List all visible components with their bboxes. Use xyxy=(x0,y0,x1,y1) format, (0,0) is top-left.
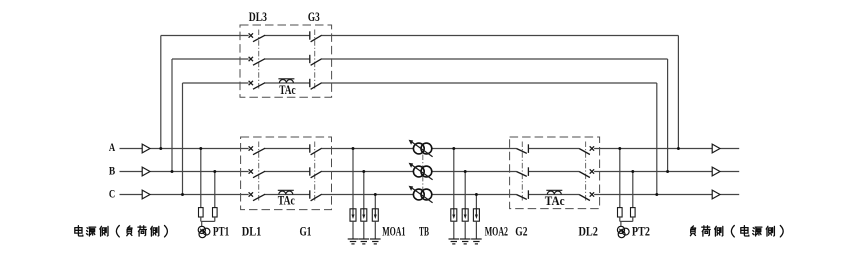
wire bypass riser left B xyxy=(171,59,173,172)
wire MOA1 A to ground xyxy=(352,221,354,239)
disconnector G3 phase A xyxy=(310,31,322,42)
fuse PT2 phase A xyxy=(618,208,623,217)
voltage transformer PT2 xyxy=(617,226,629,237)
current transformer TAc (DL2 side) xyxy=(546,190,562,194)
wire MOA2 B drop xyxy=(464,172,466,209)
circuit breaker DL1 phase C xyxy=(249,192,266,200)
wire MOA1 C to ground xyxy=(374,221,376,239)
circuit breaker DL3 phase C xyxy=(249,81,266,89)
svg-text:MOA2: MOA2 xyxy=(485,223,508,238)
fuse PT1 phase A xyxy=(199,208,204,217)
ground MOA2 phase C xyxy=(471,239,482,244)
disconnector G2 phase B xyxy=(516,167,528,176)
surge arrester MOA1 phase B xyxy=(361,209,367,221)
wire bypass riser left A xyxy=(160,36,162,149)
wire PT1 junction bar xyxy=(201,220,215,222)
wire PT2 tap from phase B xyxy=(632,172,634,208)
wire MOA1 A drop xyxy=(352,149,354,209)
arrow load phase C xyxy=(712,190,720,199)
junction PT2 A xyxy=(618,147,621,150)
disconnector G3 phase B xyxy=(310,55,322,66)
wire PT1 tap from phase B xyxy=(214,172,216,208)
junction MOA1 A xyxy=(352,147,355,150)
wire phase C main horizontal xyxy=(120,194,143,196)
surge arrester MOA2 phase C xyxy=(473,209,479,221)
svg-text:G1: G1 xyxy=(300,223,312,238)
wire PT2 tap from phase A xyxy=(619,149,621,208)
enclosure box DL3/G3 xyxy=(240,25,332,97)
surge arrester MOA2 phase B xyxy=(462,209,468,221)
wire bypass riser right B xyxy=(667,59,669,172)
voltage transformer PT1 xyxy=(198,226,210,237)
label 电源侧（负荷侧） source side xyxy=(75,226,168,237)
wire PT1 below fuse A xyxy=(200,217,202,221)
disconnector G2 phase C xyxy=(516,190,528,199)
wire bypass riser right C xyxy=(656,83,658,195)
svg-text:DL1: DL1 xyxy=(242,223,261,238)
wire MOA2 C to ground xyxy=(475,221,477,239)
junction bypass-left B xyxy=(171,170,174,173)
svg-text:G3: G3 xyxy=(308,9,320,24)
wire PT2 drop to winding xyxy=(620,221,622,226)
junction bypass-right A xyxy=(677,147,680,150)
wire MOA1 B to ground xyxy=(363,221,365,239)
wire MOA1 C drop xyxy=(374,195,376,209)
link line G3 xyxy=(314,30,316,91)
svg-text:TB: TB xyxy=(419,223,429,238)
link line G1 xyxy=(314,142,316,203)
svg-text:PT2: PT2 xyxy=(632,223,650,238)
fuse PT1 phase B xyxy=(213,208,218,217)
disconnector G1 phase A xyxy=(310,144,322,155)
surge arrester MOA1 phase A xyxy=(350,209,356,221)
wire bypass phase A horizontal xyxy=(161,35,249,37)
disconnector G1 phase B xyxy=(310,167,322,178)
disconnector G3 phase C xyxy=(310,79,322,90)
svg-text:TAc: TAc xyxy=(278,192,295,207)
svg-text:TAc: TAc xyxy=(279,82,296,97)
circuit breaker DL1 phase B xyxy=(249,169,266,177)
ground MOA1 phase B xyxy=(359,239,370,244)
wire MOA2 C drop xyxy=(475,195,477,209)
circuit breaker DL2 phase B xyxy=(579,169,594,177)
svg-text:TAc: TAc xyxy=(545,193,565,208)
wire MOA2 B to ground xyxy=(464,221,466,239)
junction bypass-left A xyxy=(159,147,162,150)
junction MOA1 B xyxy=(362,170,365,173)
circuit breaker DL2 phase C xyxy=(579,192,594,200)
disconnector G2 phase A xyxy=(516,144,528,153)
svg-text:DL2: DL2 xyxy=(579,223,598,238)
svg-text:MOA1: MOA1 xyxy=(382,223,405,238)
junction PT1 A xyxy=(199,147,202,150)
surge arrester MOA1 phase C xyxy=(372,209,378,221)
arrow load phase B xyxy=(712,167,720,176)
wire bypass riser right A xyxy=(677,36,679,149)
regulating transformer TB phase A xyxy=(409,140,433,157)
wire PT1 tap from phase A xyxy=(200,149,202,208)
link line G2 xyxy=(521,142,523,203)
ground MOA2 phase B xyxy=(460,239,471,244)
ground MOA2 phase A xyxy=(449,239,460,244)
current transformer TAc (DL1 side) xyxy=(278,190,294,194)
enclosure box DL1/G1 xyxy=(241,137,332,210)
junction PT2 B xyxy=(631,170,634,173)
svg-text:B: B xyxy=(109,166,116,178)
circuit breaker DL2 phase A xyxy=(579,146,594,154)
arrow source phase B xyxy=(142,167,150,176)
label 负荷侧（电源侧） load side xyxy=(690,226,783,237)
fuse PT2 phase B xyxy=(631,208,636,217)
link line DL1 xyxy=(258,142,260,203)
wire bypass riser left C xyxy=(182,83,184,195)
junction MOA2 A xyxy=(452,147,455,150)
arrow load phase A xyxy=(712,144,720,153)
wire MOA1 B drop xyxy=(363,172,365,209)
junction bypass-right C xyxy=(655,193,658,196)
link line DL3 xyxy=(258,30,260,91)
junction MOA2 C xyxy=(475,193,478,196)
wire MOA2 A to ground xyxy=(453,221,455,239)
enclosure box G2/DL2 xyxy=(510,137,600,209)
wire PT1 drop to winding xyxy=(201,221,203,226)
junction bypass-left C xyxy=(181,193,184,196)
svg-text:G2: G2 xyxy=(515,223,527,238)
junction PT1 B xyxy=(213,170,216,173)
ground MOA1 phase A xyxy=(348,239,359,244)
disconnector G1 phase C xyxy=(310,190,322,201)
wire bypass phase B horizontal xyxy=(172,58,249,60)
junction MOA2 B xyxy=(464,170,467,173)
current transformer TAc (bypass) xyxy=(278,79,294,83)
arrow source phase A xyxy=(142,144,150,153)
wire bypass phase C horizontal xyxy=(183,82,249,84)
surge arrester MOA2 phase A xyxy=(451,209,457,221)
wire phase B main horizontal xyxy=(120,171,143,173)
ground MOA1 phase C xyxy=(370,239,381,244)
wire PT2 below fuse A xyxy=(619,217,621,221)
wire PT1 below fuse B xyxy=(214,217,216,221)
junction MOA1 C xyxy=(374,193,377,196)
wire MOA2 A drop xyxy=(453,149,455,209)
regulating transformer TB phase C xyxy=(409,186,433,203)
svg-text:PT1: PT1 xyxy=(213,223,229,238)
svg-text:DL3: DL3 xyxy=(249,9,268,24)
wire phase A main horizontal xyxy=(120,148,143,150)
circuit breaker DL3 phase A xyxy=(249,33,266,41)
regulating transformer TB phase B xyxy=(409,163,433,180)
circuit breaker DL1 phase A xyxy=(249,146,266,154)
svg-text:C: C xyxy=(109,189,115,201)
arrow source phase C xyxy=(142,190,150,199)
wire PT2 junction bar xyxy=(620,220,633,222)
junction bypass-right B xyxy=(666,170,669,173)
svg-text:A: A xyxy=(109,142,116,154)
link line TB xyxy=(422,155,424,190)
wire PT2 below fuse B xyxy=(632,217,634,221)
circuit breaker DL3 phase B xyxy=(249,57,266,65)
link line DL2 xyxy=(585,142,587,203)
